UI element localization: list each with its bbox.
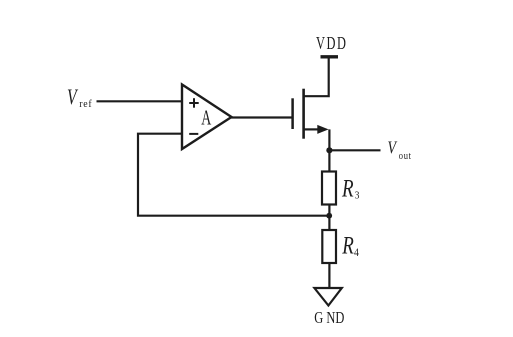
- svg-text:4: 4: [354, 246, 359, 259]
- svg-text:G ND: G ND: [314, 309, 344, 327]
- svg-text:VDD: VDD: [316, 35, 348, 53]
- svg-text:R: R: [341, 174, 354, 202]
- svg-text:ref: ref: [79, 99, 92, 111]
- svg-text:3: 3: [355, 190, 360, 202]
- svg-text:out: out: [399, 151, 412, 162]
- svg-text:R: R: [341, 231, 354, 259]
- svg-text:A: A: [201, 106, 211, 130]
